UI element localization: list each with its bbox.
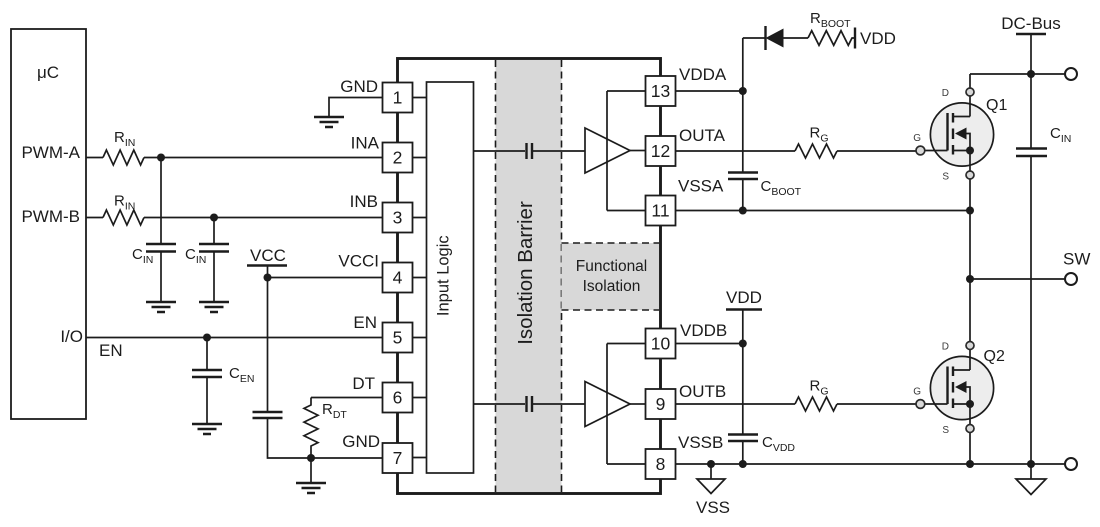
- diode DBOOT body: [766, 29, 784, 48]
- svg-text:11: 11: [651, 201, 669, 221]
- svg-text:EN: EN: [353, 313, 377, 332]
- IC outline: [398, 59, 661, 494]
- wire isolation cap A to driver: [533, 150, 585, 152]
- wire VCC cap to GND row: [268, 418, 312, 458]
- svg-text:2: 2: [393, 148, 403, 168]
- svg-text:3: 3: [393, 208, 403, 228]
- pin 2: [383, 143, 413, 173]
- resistor RG (B): [795, 397, 837, 411]
- svg-text:Isolation Barrier: Isolation Barrier: [514, 201, 537, 345]
- supply VDD (low side): [726, 288, 762, 434]
- node bus ground junction: [1027, 460, 1035, 468]
- pin 10: [646, 329, 676, 359]
- pin 12: [646, 136, 676, 166]
- svg-text:7: 7: [393, 448, 403, 468]
- isolation barrier shaded column: [496, 60, 562, 492]
- wire GND pin1: [329, 98, 383, 118]
- svg-text:S: S: [942, 425, 949, 436]
- svg-text:INB: INB: [350, 192, 378, 211]
- transistor Q1: [913, 74, 1007, 211]
- node Q2 source junction: [966, 460, 974, 468]
- svg-text:μC: μC: [37, 63, 59, 82]
- wire PWM-B to INB: [144, 217, 383, 219]
- resistor RDT: [304, 398, 383, 459]
- wire EN row: [86, 337, 383, 339]
- pin 1: [383, 83, 413, 113]
- svg-text:PWM-A: PWM-A: [21, 143, 80, 162]
- svg-text:Functional: Functional: [576, 258, 648, 275]
- terminal bottom right: [1065, 458, 1077, 470]
- pin 11: [646, 196, 676, 226]
- input logic block: [427, 82, 474, 473]
- node PWM-A junction: [157, 154, 165, 162]
- svg-text:VCC: VCC: [250, 246, 286, 265]
- supply DC-Bus: [1001, 14, 1061, 148]
- wire diode to RBOOT: [784, 37, 809, 39]
- driver B triangle: [585, 382, 630, 427]
- capacitor CEN: [192, 338, 254, 425]
- terminal DC bus: [1065, 68, 1077, 80]
- node EN junction: [203, 334, 211, 342]
- supply VCC: [247, 246, 287, 266]
- svg-text:I/O: I/O: [60, 327, 83, 346]
- wire VSSB bottom row: [676, 463, 1065, 465]
- wire PWM-A lead: [86, 157, 103, 159]
- wire GND row to pin 7: [311, 457, 383, 459]
- microcontroller uC box: [11, 29, 86, 419]
- wire VDDB pin10: [676, 343, 743, 345]
- wire bootstrap top to diode: [743, 37, 766, 39]
- ground (CIN B): [199, 302, 229, 312]
- diode DBOOT cathode bar: [764, 26, 766, 50]
- terminal SW: [1065, 273, 1077, 285]
- wire isolation cap B to driver: [533, 403, 585, 405]
- svg-text:EN: EN: [99, 341, 123, 360]
- svg-text:VDD: VDD: [860, 29, 896, 48]
- svg-text:13: 13: [651, 81, 670, 101]
- svg-text:D: D: [942, 88, 949, 99]
- pin 8: [646, 449, 676, 479]
- capacitor VCC bypass: [253, 412, 283, 418]
- isolation capacitor A: [527, 143, 533, 159]
- driver A triangle: [585, 128, 630, 173]
- svg-text:VSS: VSS: [696, 498, 730, 517]
- svg-text:G: G: [913, 133, 921, 144]
- isolation barrier dashed borders: [496, 60, 562, 492]
- pin 4: [383, 263, 413, 293]
- wire OUTA row: [676, 150, 795, 152]
- ground (CIN A): [146, 302, 176, 312]
- svg-text:5: 5: [393, 328, 403, 348]
- wire PWM-B lead: [86, 217, 103, 219]
- pin 9: [646, 389, 676, 419]
- pin 6: [383, 383, 413, 413]
- wire Q1 drain to DC bus: [970, 73, 1065, 75]
- node CBOOT/VSSA junction: [739, 207, 747, 215]
- wire VDDA pin13 to bootstrap node: [676, 90, 743, 92]
- node VDDB junction: [739, 340, 747, 348]
- node Q1 source / VSSA: [966, 207, 974, 215]
- functional isolation shaded box: [562, 243, 660, 310]
- pin 5: [383, 323, 413, 353]
- svg-text:VDDB: VDDB: [680, 321, 727, 340]
- wire Q1 source to SW node: [969, 211, 971, 280]
- pin 7: [383, 443, 413, 473]
- wire PWM-A to INA: [144, 157, 383, 159]
- resistor RG (A): [795, 144, 837, 158]
- node CVDD bottom junction: [739, 460, 747, 468]
- wire RG to Q2 gate terminal: [837, 403, 916, 405]
- svg-text:VSSA: VSSA: [678, 177, 724, 196]
- svg-text:1: 1: [393, 88, 403, 108]
- svg-text:OUTA: OUTA: [679, 126, 726, 145]
- svg-text:8: 8: [656, 454, 666, 474]
- wire VCC to VCCI pin 4: [268, 277, 384, 279]
- wire driver A supply rails: [607, 91, 645, 211]
- wire driver B supply rails: [607, 344, 645, 465]
- node RDT/GND junction: [307, 454, 315, 462]
- node SW junction: [966, 275, 974, 283]
- svg-text:D: D: [942, 342, 949, 353]
- wire DC bus lower rail: [1030, 156, 1032, 464]
- svg-text:10: 10: [651, 334, 671, 354]
- node DC bus top junction: [1027, 70, 1035, 78]
- wire channel A across barrier: [474, 150, 526, 152]
- pin 3: [383, 203, 413, 233]
- supply terminal VDD (bootstrap): [854, 28, 856, 49]
- svg-text:Q2: Q2: [984, 348, 1005, 365]
- wire down to ground: [310, 458, 312, 483]
- svg-text:GND: GND: [340, 77, 378, 96]
- pin 13: [646, 76, 676, 106]
- wire driver B output: [630, 403, 645, 405]
- svg-text:PWM-B: PWM-B: [21, 207, 80, 226]
- ground (bus, triangle): [1016, 464, 1046, 495]
- capacitor CVDD: [728, 434, 795, 464]
- resistor RIN (A): [103, 150, 144, 165]
- capacitor CIN (A): [132, 158, 176, 303]
- node VDDA junction: [739, 87, 747, 95]
- svg-text:S: S: [942, 172, 949, 183]
- node VCCI junction: [264, 274, 272, 282]
- ground (RDT): [296, 483, 326, 493]
- wire SW row: [970, 278, 1065, 280]
- wires pin stubs to input logic: [413, 98, 427, 458]
- wire VCC rail down: [267, 266, 269, 413]
- svg-text:Input Logic: Input Logic: [435, 235, 453, 316]
- svg-text:GND: GND: [342, 432, 380, 451]
- svg-text:Q1: Q1: [986, 97, 1007, 114]
- wire VSSA row: [676, 210, 970, 212]
- capacitor CIN (B): [185, 218, 229, 303]
- svg-text:VDDA: VDDA: [679, 65, 727, 84]
- svg-text:4: 4: [393, 268, 403, 288]
- resistor RIN (B): [103, 210, 144, 225]
- svg-text:Isolation: Isolation: [583, 278, 641, 295]
- capacitor CIN (bus): [1016, 125, 1071, 156]
- ground (CEN): [192, 424, 222, 434]
- svg-text:VCCI: VCCI: [338, 252, 379, 271]
- svg-text:12: 12: [651, 141, 670, 161]
- svg-text:VSSB: VSSB: [678, 433, 723, 452]
- ground VSS (triangle): [696, 464, 730, 517]
- ground (pin 1 GND): [314, 117, 344, 127]
- wire channel B across barrier: [474, 403, 526, 405]
- wire RG to Q1 gate terminal: [837, 150, 916, 152]
- wire driver A output: [630, 150, 645, 152]
- capacitor CBOOT: [728, 173, 802, 199]
- wire OUTB row: [676, 403, 795, 405]
- svg-text:VDD: VDD: [726, 288, 762, 307]
- svg-text:SW: SW: [1063, 250, 1090, 269]
- svg-text:DC-Bus: DC-Bus: [1001, 14, 1061, 33]
- transistor Q2: [913, 279, 1005, 464]
- isolation capacitor B: [527, 396, 533, 412]
- svg-text:DT: DT: [352, 374, 375, 393]
- svg-text:9: 9: [656, 394, 666, 414]
- svg-text:INA: INA: [351, 134, 380, 153]
- node PWM-B junction: [210, 214, 218, 222]
- svg-text:G: G: [913, 387, 921, 398]
- resistor RBOOT: [808, 31, 855, 46]
- svg-text:OUTB: OUTB: [679, 382, 726, 401]
- wire bootstrap vertical rail: [742, 38, 744, 211]
- svg-text:6: 6: [393, 388, 403, 408]
- node VSS junction: [707, 460, 715, 468]
